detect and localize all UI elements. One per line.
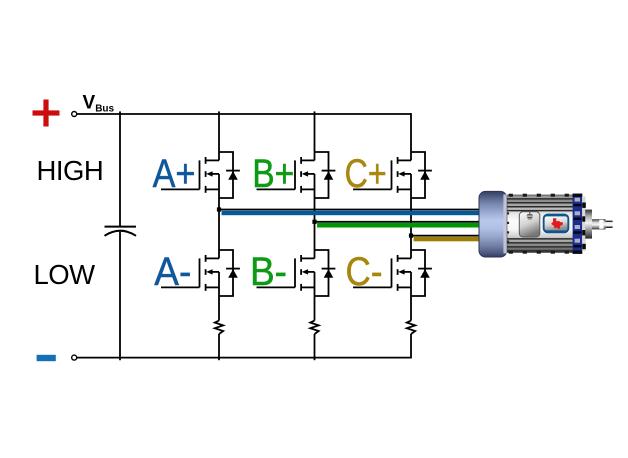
wire leg C drain (bus to C+ ) xyxy=(410,113,412,160)
svg-text:B-: B- xyxy=(250,250,287,294)
negative terminal symbol xyxy=(37,355,56,361)
transistor C+ xyxy=(392,157,412,193)
wire phase A to motor (black) xyxy=(219,209,489,211)
junction node phase B xyxy=(312,220,316,224)
transistor B+ xyxy=(295,157,315,193)
bottom bus wire xyxy=(77,357,411,359)
transistor C- xyxy=(392,255,412,291)
svg-text:A+: A+ xyxy=(153,152,196,196)
motor nameplate label xyxy=(519,212,540,237)
wire shunt to bottom bus leg B xyxy=(314,334,316,360)
wire phase B highlight (green) xyxy=(317,223,489,228)
wire leg A phase node segment xyxy=(218,174,220,259)
gate lead A+ xyxy=(161,188,200,190)
motor rear flange xyxy=(573,194,583,254)
wire leg B drain (bus to B+ ) xyxy=(314,111,316,160)
shaft tip xyxy=(606,221,613,223)
body diode A+ xyxy=(219,152,240,198)
wire shunt to bottom bus leg C xyxy=(410,334,412,359)
svg-text:A-: A- xyxy=(154,250,191,294)
motor hub xyxy=(585,210,592,239)
wire leg C source to shunt xyxy=(410,272,412,321)
wire phase C highlight (dark yellow) xyxy=(414,237,489,242)
svg-text:HIGH: HIGH xyxy=(37,155,104,186)
body diode C+ xyxy=(411,152,432,198)
wire leg A source to shunt xyxy=(218,272,220,321)
wire phase A highlight (blue) xyxy=(222,211,489,216)
BLDC motor xyxy=(479,191,613,257)
junction node phase A xyxy=(217,207,221,211)
wire phase C to motor (black) xyxy=(411,235,489,237)
transistor A+ xyxy=(200,157,220,193)
capacitor C1 xyxy=(105,227,137,236)
wire phase B to motor (black) xyxy=(315,221,490,223)
body diode B+ xyxy=(315,152,336,198)
transistor B- xyxy=(295,255,315,291)
resistor R_C xyxy=(407,321,415,334)
svg-text:LOW: LOW xyxy=(34,259,96,290)
body diode B- xyxy=(315,250,336,296)
motor shaft xyxy=(592,219,606,229)
gate lead A- xyxy=(161,286,200,288)
svg-text:C-: C- xyxy=(346,250,383,294)
top bus wire V_Bus xyxy=(77,113,411,115)
positive terminal symbol xyxy=(33,100,60,127)
body diode C- xyxy=(411,250,432,296)
resistor R_A xyxy=(215,321,223,334)
TI texas logo xyxy=(551,218,563,229)
wire leg C phase node segment xyxy=(410,174,412,259)
wire leg B phase node segment xyxy=(314,174,316,259)
motor body xyxy=(505,195,575,253)
TI logo badge xyxy=(543,214,570,234)
junction node phase C xyxy=(409,234,413,238)
resistor R_B xyxy=(310,321,318,334)
gate lead C- xyxy=(353,286,392,288)
positive terminal node xyxy=(72,112,77,117)
transistor A- xyxy=(200,255,220,291)
gate lead B+ xyxy=(257,188,296,190)
wire leg A drain (bus to A+ ) xyxy=(218,111,220,160)
DC bus capacitor C1 branch wire xyxy=(119,111,121,226)
flange teeth xyxy=(582,197,585,251)
negative terminal node xyxy=(72,355,77,360)
body diode A- xyxy=(219,250,240,296)
svg-text:B+: B+ xyxy=(252,152,294,196)
gate lead C+ xyxy=(353,188,392,190)
wire shunt to bottom bus leg A xyxy=(218,334,220,360)
gate lead B- xyxy=(257,286,296,288)
svg-text:C+: C+ xyxy=(345,152,387,196)
motor left end cap xyxy=(479,191,507,257)
wire leg B source to shunt xyxy=(314,272,316,321)
